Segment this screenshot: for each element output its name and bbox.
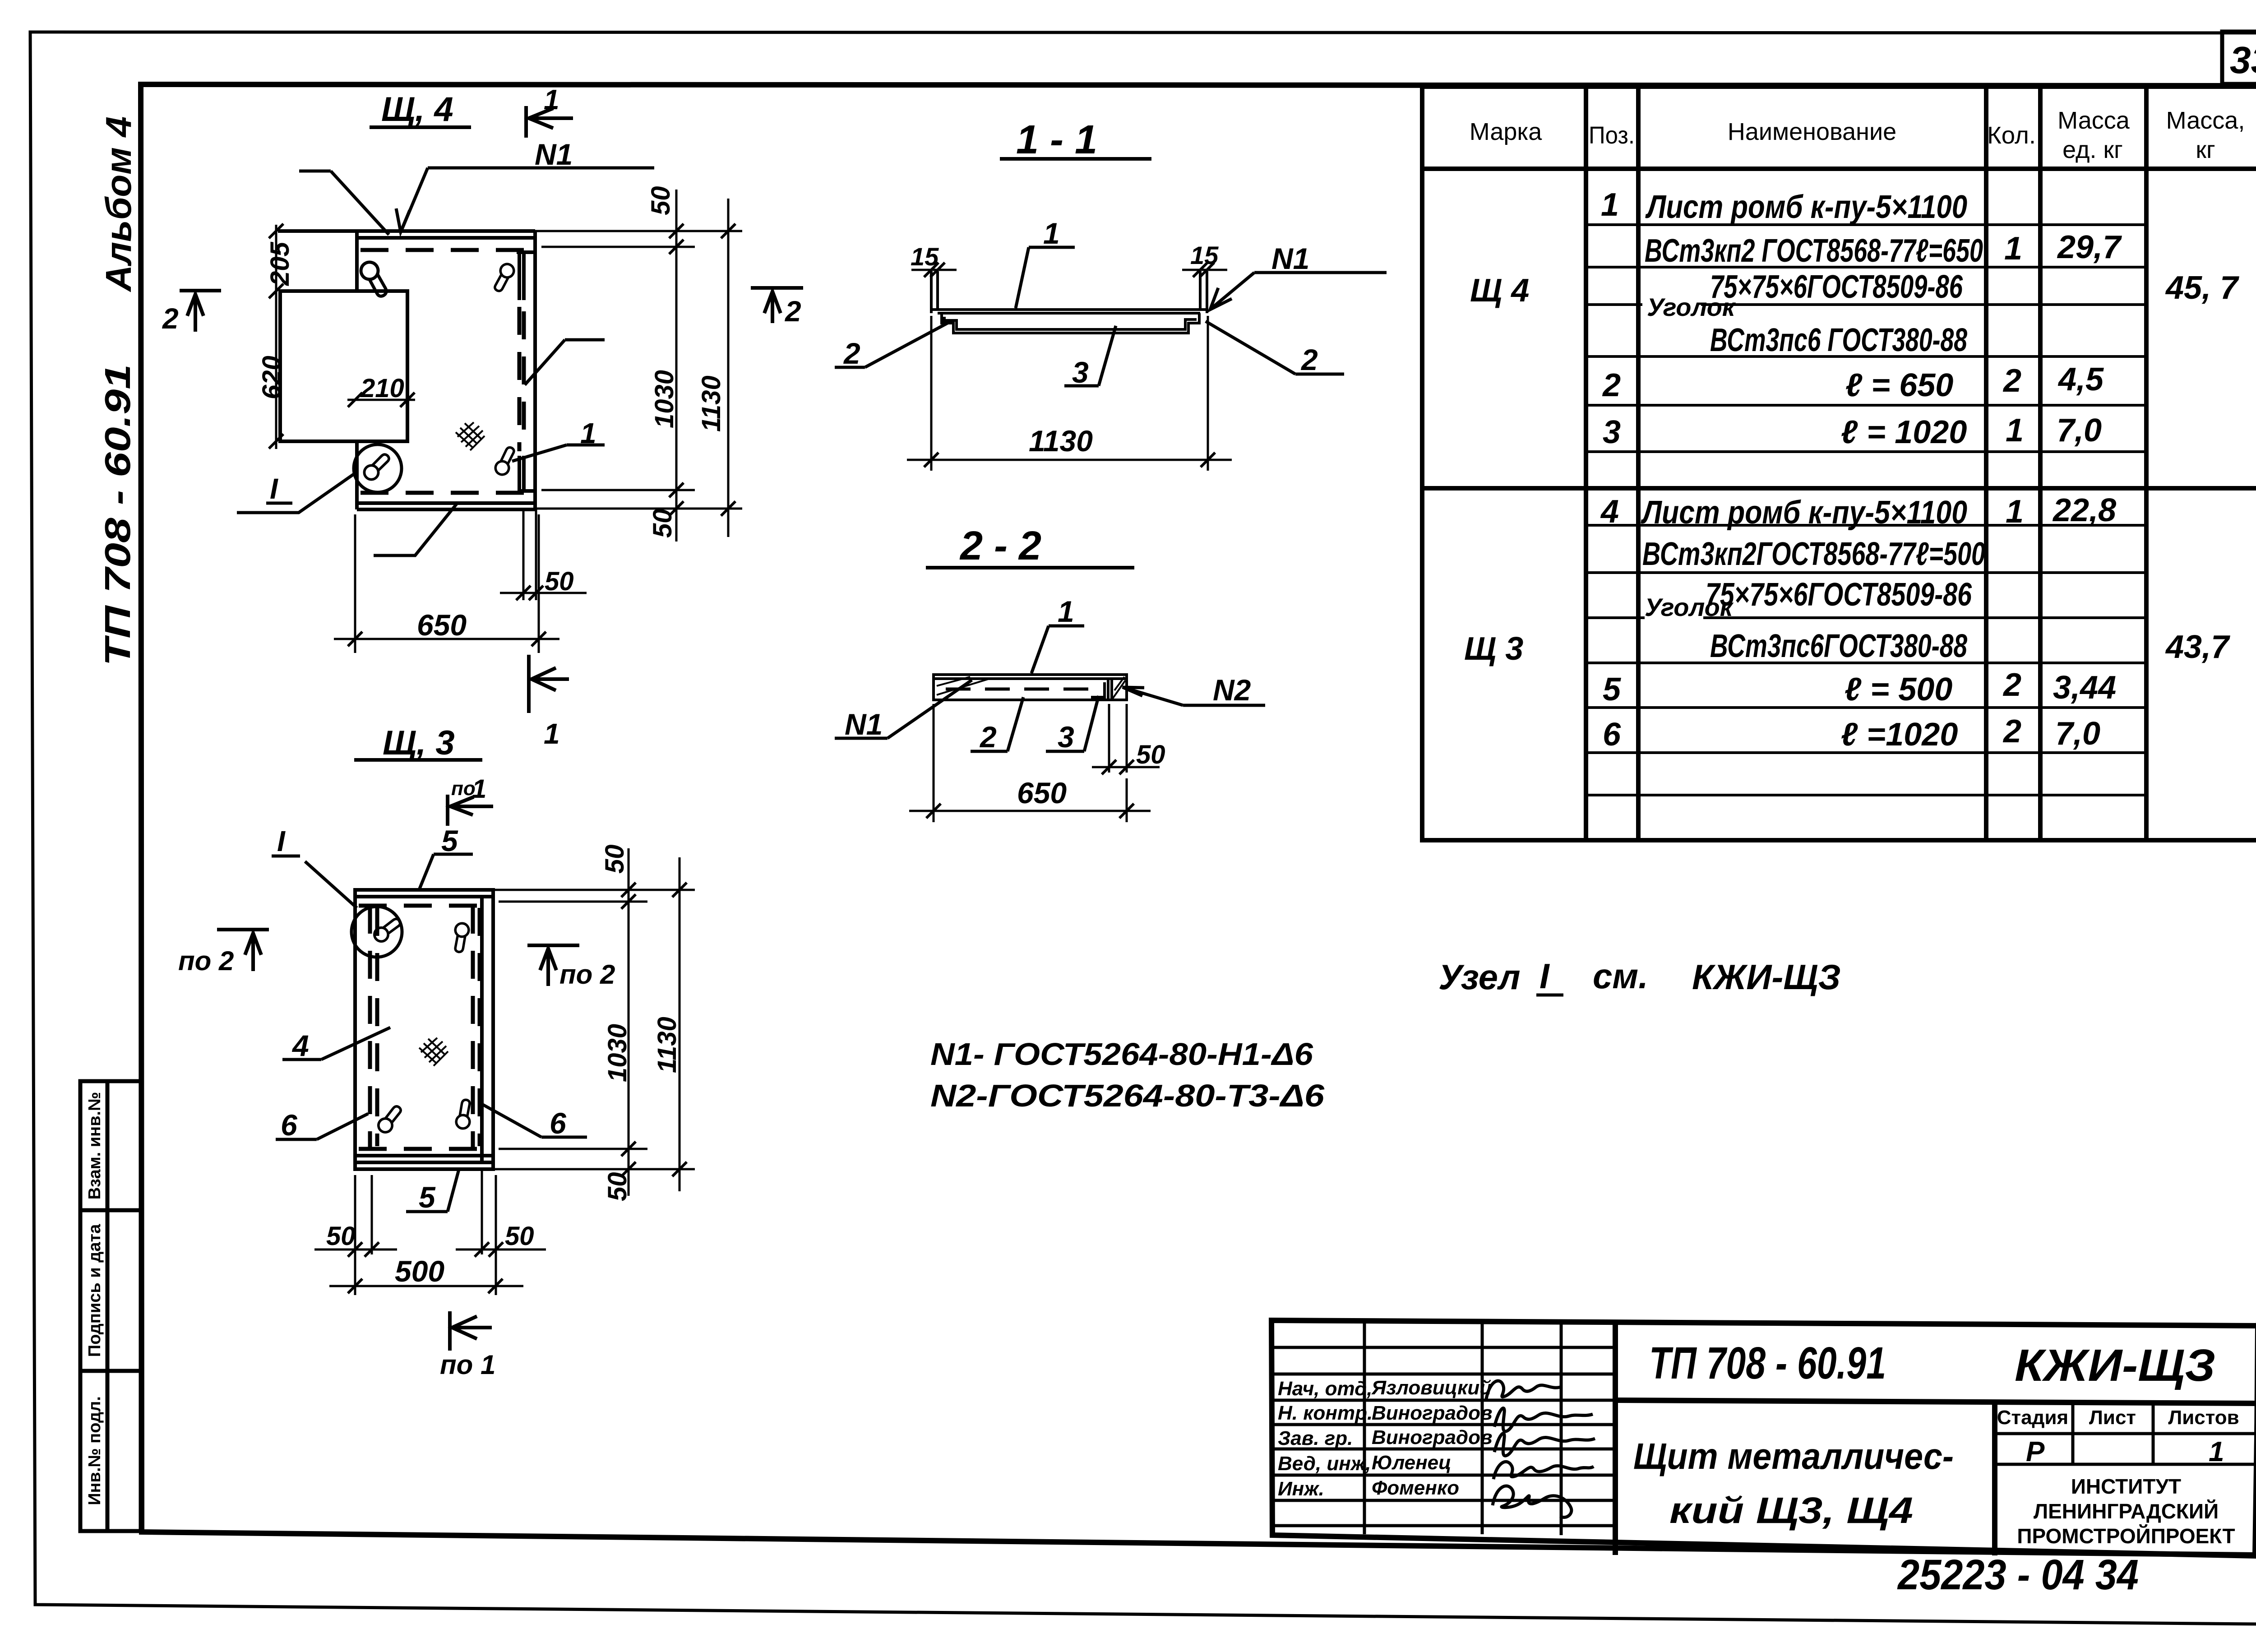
- svg-text:650: 650: [1017, 776, 1067, 810]
- signatures: [1486, 1381, 1595, 1517]
- svg-text:5: 5: [441, 824, 458, 857]
- svg-text:Щит металличес-: Щит металличес-: [1633, 1436, 1954, 1477]
- svg-text:500: 500: [395, 1254, 444, 1288]
- svg-text:3: 3: [1072, 356, 1089, 389]
- svg-text:Нач, отд,: Нач, отд,: [1278, 1378, 1373, 1400]
- svg-text:N2-ГОСТ5264-80-Т3-Δ6: N2-ГОСТ5264-80-Т3-Δ6: [930, 1078, 1325, 1113]
- section 2-2 hidden dashed: [946, 688, 1101, 691]
- svg-text:2: 2: [162, 302, 179, 335]
- section mark по1 bottom: [450, 1311, 492, 1351]
- dim 15 right (1-1): [1182, 263, 1227, 277]
- node I circle: [354, 444, 402, 492]
- leader pos1 keyhole: [512, 445, 605, 461]
- svg-text:Кол.: Кол.: [1987, 122, 2036, 149]
- svg-text:N1: N1: [845, 708, 883, 741]
- leader pos3 (1-1): [1064, 326, 1116, 386]
- svg-text:1 - 1: 1 - 1: [1016, 117, 1097, 162]
- svg-text:Виноградов: Виноградов: [1372, 1426, 1493, 1448]
- svg-text:45, 7: 45, 7: [2165, 270, 2239, 306]
- section mark 2 (right): [751, 288, 803, 323]
- svg-text:2: 2: [1300, 343, 1318, 376]
- svg-text:Р: Р: [2026, 1436, 2045, 1467]
- svg-text:50: 50: [1136, 740, 1165, 769]
- leader pos2 right: [525, 340, 605, 385]
- opening notch Щ4: [280, 291, 407, 441]
- svg-text:N1- ГОСТ5264-80-Н1-Δ6: N1- ГОСТ5264-80-Н1-Δ6: [930, 1037, 1313, 1072]
- svg-text:1: 1: [2004, 231, 2022, 267]
- svg-text:1: 1: [2209, 1436, 2224, 1467]
- svg-text:205: 205: [265, 241, 295, 286]
- leader pos2 right (1-1): [1206, 321, 1344, 374]
- svg-text:Зав. гр.: Зав. гр.: [1278, 1427, 1353, 1449]
- svg-text:Марка: Марка: [1470, 118, 1542, 145]
- dim 50 bottom (under plate): [500, 509, 587, 600]
- svg-text:Подпись и дата: Подпись и дата: [85, 1224, 104, 1357]
- plate outline Щ3: [355, 890, 493, 1169]
- svg-text:ВСт3пс6 ГОСТ380-88: ВСт3пс6 ГОСТ380-88: [1710, 322, 1967, 358]
- svg-text:ℓ = 500: ℓ = 500: [1845, 671, 1952, 708]
- svg-text:Инж.: Инж.: [1278, 1478, 1324, 1500]
- leader pos2 (2-2): [971, 697, 1023, 751]
- svg-text:3,44: 3,44: [2053, 670, 2116, 706]
- svg-text:6: 6: [1603, 717, 1621, 753]
- dim 1030: [669, 190, 684, 541]
- svg-text:1: 1: [472, 774, 486, 804]
- dim 1030 Щ3: [621, 848, 636, 1196]
- leader pos6 left: [276, 1114, 368, 1139]
- svg-text:75×75×6ГОСТ8509-86: 75×75×6ГОСТ8509-86: [1710, 269, 1963, 305]
- svg-text:2: 2: [979, 720, 997, 754]
- svg-text:Юленец: Юленец: [1372, 1452, 1452, 1474]
- svg-text:650: 650: [417, 608, 467, 642]
- svg-text:50: 50: [545, 567, 574, 596]
- svg-text:4: 4: [291, 1029, 309, 1062]
- section mark по1 top: [448, 795, 493, 826]
- bottom dims Щ3: [314, 1169, 546, 1295]
- svg-text:ВСт3пс6ГОСТ380-88: ВСт3пс6ГОСТ380-88: [1710, 628, 1967, 664]
- section mark по2 left: [217, 930, 269, 971]
- leader N1 top: [299, 168, 654, 235]
- svg-text:ℓ =1020: ℓ =1020: [1841, 717, 1958, 753]
- dim extension lines right Щ3: [493, 890, 695, 1169]
- lifting keyholes Щ4: [356, 260, 392, 297]
- svg-text:2: 2: [2002, 363, 2021, 399]
- svg-text:кг: кг: [2196, 136, 2215, 163]
- svg-text:22,8: 22,8: [2052, 492, 2116, 528]
- dim 650 bottom: [334, 514, 559, 653]
- leader pos6 right: [480, 1103, 587, 1137]
- svg-text:см.: см.: [1593, 956, 1648, 996]
- dim 1130 Щ3: [672, 857, 687, 1191]
- dim extension lines right Щ4: [535, 231, 742, 509]
- svg-text:1030: 1030: [650, 370, 679, 428]
- title block handwritten rows: [1278, 1377, 1493, 1500]
- svg-text:1130: 1130: [1029, 424, 1093, 458]
- svg-text:1: 1: [580, 417, 596, 449]
- svg-text:4: 4: [1600, 494, 1619, 530]
- leader pos3 bottom: [374, 502, 458, 555]
- svg-text:N2: N2: [1213, 673, 1251, 707]
- section mark 1 (bottom): [529, 655, 569, 713]
- svg-text:Наименование: Наименование: [1728, 118, 1896, 145]
- mesh hatch mark Щ3: [419, 1038, 448, 1066]
- svg-text:Уголок: Уголок: [1645, 593, 1734, 621]
- leader pos4: [282, 1027, 390, 1060]
- leader pos5 top: [419, 854, 473, 891]
- svg-text:2: 2: [2002, 713, 2021, 750]
- leader pos1 (1-1): [1016, 247, 1075, 308]
- svg-text:Поз.: Поз.: [1589, 122, 1635, 149]
- svg-text:ИНСТИТУТ: ИНСТИТУТ: [2071, 1475, 2181, 1498]
- hidden angle lines (dashed) Щ4: [361, 250, 527, 493]
- left margin stamp boxes: [80, 1081, 141, 1531]
- dim 1130 (1-1): [907, 316, 1232, 471]
- svg-text:3: 3: [1058, 720, 1074, 754]
- svg-text:ЛЕНИНГРАДСКИЙ: ЛЕНИНГРАДСКИЙ: [2034, 1499, 2219, 1523]
- svg-text:50: 50: [646, 186, 675, 215]
- leader pos1 (2-2): [1031, 626, 1084, 673]
- svg-text:50: 50: [648, 509, 677, 538]
- dim 1130: [721, 199, 735, 537]
- section 1-1 plate: [932, 310, 1206, 313]
- svg-text:Виноградов: Виноградов: [1372, 1402, 1493, 1424]
- svg-text:Щ, 4: Щ, 4: [381, 90, 453, 129]
- hidden angle lines (dashed) Щ3: [359, 906, 490, 1149]
- svg-text:25223 - 04 34: 25223 - 04 34: [1897, 1551, 2139, 1599]
- table header text: [1470, 107, 2245, 163]
- svg-text:Фоменко: Фоменко: [1372, 1477, 1459, 1499]
- svg-text:Язловицкий: Язловицкий: [1371, 1377, 1492, 1399]
- svg-text:1: 1: [1043, 217, 1060, 250]
- section 2-2 weld hatches: [937, 677, 1125, 699]
- svg-text:50: 50: [326, 1222, 356, 1251]
- table body handwritten: [1464, 187, 2239, 753]
- svg-text:КЖИ-ЩЗ: КЖИ-ЩЗ: [1692, 957, 1841, 997]
- svg-text:Масса: Масса: [2057, 107, 2130, 134]
- leader pos3 (2-2): [1046, 696, 1099, 751]
- svg-text:Лист: Лист: [2089, 1407, 2136, 1429]
- section mark по2 right: [527, 945, 579, 986]
- svg-text:6: 6: [281, 1108, 298, 1142]
- svg-text:Уголок: Уголок: [1647, 293, 1736, 321]
- svg-text:33: 33: [2230, 39, 2256, 81]
- svg-text:1130: 1130: [652, 1017, 682, 1073]
- section 2-2 right angle: [1091, 679, 1112, 700]
- svg-text:ТП 708 - 60.91: ТП 708 - 60.91: [1649, 1338, 1886, 1388]
- svg-text:ед. кг: ед. кг: [2062, 136, 2123, 163]
- dim 50 (2-2): [1092, 704, 1160, 774]
- svg-text:ВСт3кп2ГОСТ8568-77ℓ=500: ВСт3кп2ГОСТ8568-77ℓ=500: [1642, 536, 1985, 572]
- svg-text:5: 5: [1603, 671, 1621, 708]
- svg-text:Масса,: Масса,: [2166, 107, 2245, 134]
- svg-text:15: 15: [1190, 241, 1219, 269]
- svg-text:ТП 708 - 60.91: ТП 708 - 60.91: [97, 364, 138, 666]
- svg-text:2: 2: [1602, 367, 1621, 403]
- svg-text:7,0: 7,0: [2057, 412, 2102, 449]
- svg-text:I: I: [277, 825, 286, 857]
- svg-text:1030: 1030: [603, 1024, 632, 1082]
- svg-text:4,5: 4,5: [2057, 361, 2104, 398]
- svg-text:по 2: по 2: [559, 959, 615, 990]
- svg-text:210: 210: [360, 374, 404, 403]
- plate outline Щ4: [278, 231, 535, 509]
- svg-text:Лист ромб к-пу-5×1100: Лист ромб к-пу-5×1100: [1645, 189, 1967, 225]
- svg-text:1: 1: [1058, 595, 1074, 628]
- svg-text:75×75×6ГОСТ8509-86: 75×75×6ГОСТ8509-86: [1706, 577, 1972, 613]
- svg-text:50: 50: [603, 1172, 632, 1201]
- svg-text:15: 15: [911, 242, 939, 271]
- svg-text:1: 1: [544, 84, 559, 116]
- svg-text:620: 620: [257, 356, 287, 399]
- svg-text:кий Щ3, Щ4: кий Щ3, Щ4: [1669, 1490, 1913, 1531]
- svg-text:КЖИ-ЩЗ: КЖИ-ЩЗ: [2015, 1340, 2215, 1391]
- svg-text:1130: 1130: [697, 375, 726, 432]
- svg-text:ℓ = 650: ℓ = 650: [1845, 367, 1953, 403]
- dim 620 left: [269, 298, 283, 449]
- lifting keyholes Щ3: [374, 917, 401, 943]
- svg-text:по 1: по 1: [440, 1350, 495, 1380]
- svg-text:Щ, 3: Щ, 3: [383, 724, 455, 762]
- mesh hatch mark Щ4: [456, 422, 485, 450]
- section 2-2 plate: [934, 675, 1127, 700]
- leader N1 (1-1): [1210, 273, 1387, 310]
- svg-text:2 - 2: 2 - 2: [959, 523, 1041, 569]
- svg-text:Щ 3: Щ 3: [1464, 631, 1523, 667]
- svg-text:3: 3: [1603, 414, 1621, 450]
- svg-text:Листов: Листов: [2168, 1407, 2239, 1429]
- svg-text:по 2: по 2: [178, 946, 234, 976]
- svg-text:I: I: [1539, 956, 1550, 996]
- svg-text:Инв.№ подл.: Инв.№ подл.: [85, 1396, 104, 1505]
- svg-text:29,7: 29,7: [2057, 229, 2122, 265]
- svg-text:43,7: 43,7: [2165, 629, 2230, 665]
- svg-text:2: 2: [843, 337, 860, 370]
- svg-text:1: 1: [2006, 494, 2024, 530]
- svg-text:Н. контр.: Н. контр.: [1278, 1402, 1373, 1424]
- svg-text:ВСт3кп2 ГОСТ8568-77ℓ=650: ВСт3кп2 ГОСТ8568-77ℓ=650: [1645, 233, 1983, 269]
- svg-text:N1: N1: [535, 138, 573, 171]
- section mark 2 (left): [180, 291, 221, 332]
- node I label Щ3: [272, 856, 357, 908]
- node I circle Щ3: [351, 907, 402, 957]
- svg-text:1: 1: [2006, 412, 2024, 449]
- title block main texts: [1649, 1338, 2215, 1391]
- svg-text:ℓ = 1020: ℓ = 1020: [1841, 414, 1967, 450]
- svg-text:I: I: [270, 472, 278, 505]
- svg-text:2: 2: [2002, 667, 2021, 703]
- svg-text:Щ 4: Щ 4: [1470, 273, 1529, 309]
- dim 210 opening: [347, 393, 415, 407]
- svg-text:2: 2: [785, 295, 801, 328]
- svg-text:5: 5: [419, 1180, 436, 1214]
- leader N1 (2-2): [835, 680, 972, 738]
- page number box 33: [2222, 32, 2256, 84]
- dim 650 (2-2): [909, 704, 1151, 822]
- svg-text:50: 50: [505, 1222, 534, 1251]
- section 1-1 bottom channel (angle pos.3): [942, 313, 1199, 333]
- svg-text:Альбом 4: Альбом 4: [98, 116, 139, 292]
- dim 205 left: [269, 224, 283, 298]
- svg-text:N1: N1: [1271, 242, 1309, 275]
- section mark 1 (top): [526, 106, 573, 138]
- svg-text:7,0: 7,0: [2055, 716, 2100, 752]
- svg-text:1: 1: [1601, 187, 1619, 223]
- svg-text:Вед, инж,: Вед, инж,: [1278, 1453, 1371, 1475]
- svg-text:Узел: Узел: [1438, 957, 1520, 997]
- dim 15 left (1-1): [911, 263, 957, 277]
- leader pos2 left (1-1): [835, 323, 948, 367]
- svg-text:1: 1: [544, 717, 560, 750]
- svg-text:Лист ромб к-пу-5×1100: Лист ромб к-пу-5×1100: [1641, 495, 1967, 531]
- section 1-1 right upstand: [1200, 271, 1207, 313]
- svg-text:Взам. инв.№: Взам. инв.№: [85, 1092, 104, 1200]
- leader pos5 bottom: [406, 1168, 459, 1212]
- svg-text:ПРОМСТРОЙПРОЕКТ: ПРОМСТРОЙПРОЕКТ: [2017, 1524, 2235, 1548]
- node I leader and label: [237, 473, 356, 513]
- section 1-1 left upstand: [931, 271, 938, 313]
- leader N2 (2-2): [1123, 687, 1265, 705]
- svg-text:50: 50: [600, 844, 629, 874]
- svg-text:Стадия: Стадия: [1997, 1407, 2068, 1429]
- svg-text:6: 6: [550, 1106, 567, 1140]
